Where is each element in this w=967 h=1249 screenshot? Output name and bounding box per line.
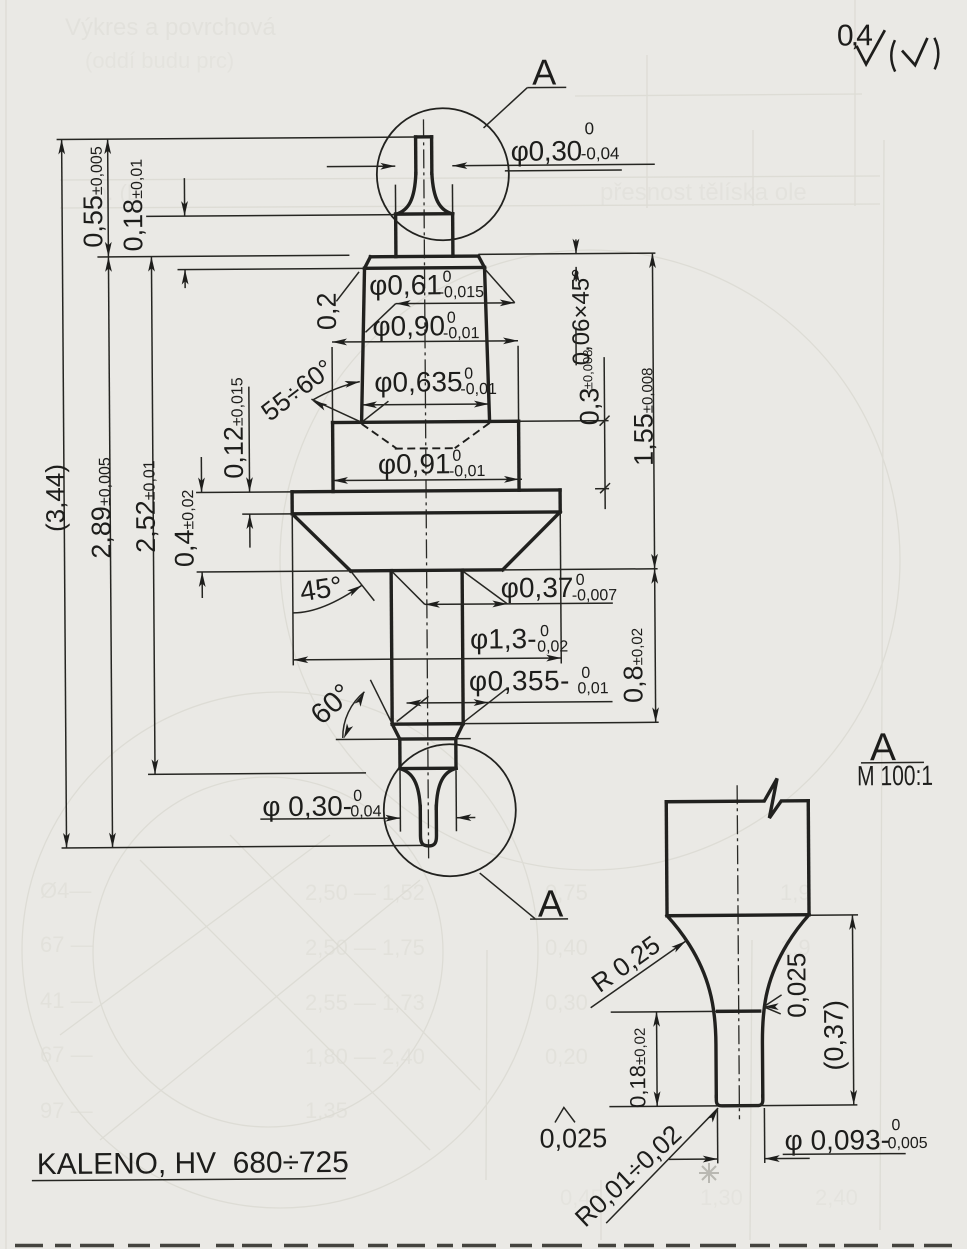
dim 0,8 xyxy=(655,569,656,722)
detail circle top xyxy=(376,108,509,241)
svg-text:0,025: 0,025 xyxy=(539,1123,607,1153)
dim 0,06x45 xyxy=(575,239,577,253)
extension line cone-base left xyxy=(197,571,351,572)
stem sides xyxy=(391,571,392,724)
bottom needle with round tip xyxy=(420,806,436,846)
dim 55÷60 xyxy=(311,399,361,423)
svg-text:φ 0,093-: φ 0,093- xyxy=(785,1124,891,1156)
dim 2,52 xyxy=(151,257,155,775)
flange sides xyxy=(290,492,294,514)
svg-text:(0,37): (0,37) xyxy=(819,1000,849,1071)
svg-text:φ0,30: φ0,30 xyxy=(511,135,582,166)
svg-text:φ0,61: φ0,61 xyxy=(369,269,442,301)
svg-text:0: 0 xyxy=(353,788,362,805)
dim 0,025 right xyxy=(764,1003,779,1010)
dim 0,18±0,02 detail xyxy=(656,1012,659,1106)
svg-text:0,40: 0,40 xyxy=(545,935,588,960)
svg-text:0,3: 0,3 xyxy=(574,388,604,426)
detail shoulder line xyxy=(667,913,809,917)
svg-text:φ 0,30-: φ 0,30- xyxy=(262,790,352,822)
head block sides xyxy=(361,268,366,422)
phi0.91 section sides xyxy=(331,423,335,492)
dim phi0,90 xyxy=(332,341,518,342)
dim 0,18 top phi0,30 line xyxy=(327,165,395,167)
svg-text:0,4: 0,4 xyxy=(837,19,873,52)
hidden cone dashed xyxy=(362,424,397,449)
flange top edge xyxy=(292,490,560,492)
dim 45deg xyxy=(351,571,375,601)
bottom trumpet flare xyxy=(400,769,420,809)
part centerline xyxy=(423,119,428,858)
chamfer base face xyxy=(400,737,456,741)
svg-text:0: 0 xyxy=(576,572,585,589)
dim R0,01÷0,02 xyxy=(605,1108,718,1223)
svg-text:Výkres a povrchová: Výkres a povrchová xyxy=(65,14,276,41)
dim (3,44) xyxy=(62,139,67,847)
detail 0,18 tick line xyxy=(611,1010,718,1013)
svg-text:0,02: 0,02 xyxy=(537,638,568,655)
detail cylinder sides xyxy=(665,802,669,916)
svg-text:φ0,91: φ0,91 xyxy=(378,448,451,480)
svg-text:67 —: 67 — xyxy=(40,932,93,957)
needle sides top xyxy=(414,137,418,173)
svg-text:2,50 — 1,52: 2,50 — 1,52 xyxy=(305,880,425,905)
part outline: tip top edge xyxy=(416,135,432,139)
extension verticals phi0,90 xyxy=(331,347,334,422)
dim 0,4 xyxy=(200,457,202,492)
paren right xyxy=(934,38,938,70)
dim 0,18 xyxy=(183,178,185,216)
svg-text:φ0,635: φ0,635 xyxy=(374,366,462,398)
svg-text:1,35: 1,35 xyxy=(305,1098,348,1123)
dim 0,12 xyxy=(248,387,251,492)
extension line step level right xyxy=(519,420,609,423)
60deg chamfer xyxy=(392,724,400,739)
svg-text:±0,008: ±0,008 xyxy=(580,350,595,390)
svg-text:0: 0 xyxy=(447,310,456,327)
roughness check small xyxy=(902,38,928,65)
extension verticals phi1,3 xyxy=(292,514,293,665)
extension line flange-top right short xyxy=(595,488,609,490)
svg-text:-0,04: -0,04 xyxy=(581,144,620,163)
trumpet flare top xyxy=(395,173,416,214)
svg-text:φ0,90: φ0,90 xyxy=(372,310,445,342)
extension verticals phi0,30 bottom xyxy=(399,771,401,832)
svg-text:1,30: 1,30 xyxy=(700,1185,743,1210)
dim phi0,61 xyxy=(396,302,515,305)
45deg cone xyxy=(292,513,350,571)
bottom shoulder xyxy=(400,766,456,770)
stem end face xyxy=(392,722,463,726)
svg-text:97 —: 97 — xyxy=(40,1098,93,1123)
flange bottom edge xyxy=(292,512,560,514)
svg-text:φ0,37: φ0,37 xyxy=(501,572,574,604)
svg-text:0,025: 0,025 xyxy=(781,953,811,1018)
detail centerline xyxy=(737,785,739,1119)
svg-text:2,50 — 1,75: 2,50 — 1,75 xyxy=(305,935,425,960)
detail needle round tip xyxy=(716,1096,763,1106)
svg-text:φ1,3-: φ1,3- xyxy=(470,623,537,654)
svg-text:-0,01: -0,01 xyxy=(460,381,497,398)
step edge xyxy=(333,421,519,422)
svg-text:0,04: 0,04 xyxy=(350,803,381,820)
svg-text:0,01: 0,01 xyxy=(577,680,608,697)
svg-text:0: 0 xyxy=(581,665,590,682)
svg-text:(3,44): (3,44) xyxy=(40,464,70,532)
dim 0,3 xyxy=(604,357,605,509)
leader to A bottom xyxy=(480,873,535,919)
phi0.30 bottom cylinder xyxy=(398,739,402,768)
svg-text:67 —: 67 — xyxy=(40,1042,93,1067)
detail (0,37) ext right xyxy=(809,914,858,916)
svg-text:0,2: 0,2 xyxy=(312,292,342,330)
dim phi0,635 xyxy=(362,403,489,406)
leader to A top xyxy=(483,88,527,128)
svg-text:2,40: 2,40 xyxy=(815,1185,858,1210)
svg-text:-0,01: -0,01 xyxy=(443,325,480,342)
surface mark 0,025 bottom left xyxy=(555,1107,575,1122)
svg-text:(oddí budu prc): (oddí budu prc) xyxy=(85,48,234,73)
svg-text:0,30: 0,30 xyxy=(545,990,588,1015)
extension line flange-top left xyxy=(196,491,292,494)
svg-text:0: 0 xyxy=(540,623,549,640)
extension line head-face level left xyxy=(97,255,349,257)
svg-text:A: A xyxy=(538,883,564,925)
detail trumpet curves xyxy=(667,915,716,1096)
extension line block-top level left xyxy=(178,268,365,269)
extension line tip top level xyxy=(57,137,416,140)
svg-text:0,20: 0,20 xyxy=(545,1044,588,1069)
dim phi1,3 xyxy=(293,658,561,660)
svg-text:0: 0 xyxy=(452,448,461,465)
svg-text:M 100:1: M 100:1 xyxy=(857,760,933,792)
scanner edge dashes xyxy=(15,1244,952,1248)
paren left xyxy=(891,40,895,72)
dim phi0,91 xyxy=(333,479,522,480)
shoulder line xyxy=(396,212,453,216)
svg-text:41 —: 41 — xyxy=(40,988,93,1013)
extension line chamfer-base left xyxy=(336,738,471,741)
head chamfer 0,06x45 xyxy=(364,257,370,269)
svg-text:-0,015: -0,015 xyxy=(439,284,485,301)
detail tip extension line xyxy=(609,1105,857,1107)
svg-text:-0,01: -0,01 xyxy=(449,463,486,480)
dim phi0,30 bottom xyxy=(260,817,400,820)
extension line stem-end right xyxy=(463,722,658,723)
svg-text:1,80 — 2,40: 1,80 — 2,40 xyxy=(305,1044,425,1069)
svg-text:0: 0 xyxy=(464,366,473,383)
svg-text:0: 0 xyxy=(584,119,594,138)
svg-text:KALENO, HV 680÷725: KALENO, HV 680÷725 xyxy=(37,1146,349,1181)
svg-text:0: 0 xyxy=(891,1117,900,1134)
dim phi0,355 xyxy=(407,702,613,703)
svg-text:Ø4—⁠: Ø4—⁠ xyxy=(40,878,91,903)
dim phi0,37 xyxy=(425,603,613,604)
svg-text:0,005: 0,005 xyxy=(888,1135,928,1152)
extension line cone-base right xyxy=(503,569,658,570)
svg-text:A: A xyxy=(532,51,556,92)
extension line head-face level right xyxy=(478,253,655,254)
dim (0,37) xyxy=(852,915,853,1105)
extension line 2,52 bottom xyxy=(148,773,366,775)
faint gray asterisk mark xyxy=(699,1163,719,1183)
dim 0,2 leader xyxy=(336,272,359,301)
head top face xyxy=(370,254,478,258)
dim 1,55 xyxy=(652,253,654,569)
svg-text:45°: 45° xyxy=(298,570,344,607)
dim phi0,093 xyxy=(716,1108,718,1163)
svg-text:přesnost tělíska ole: přesnost tělíska ole xyxy=(600,179,807,206)
cone base line xyxy=(351,570,503,571)
svg-text:-0,007: -0,007 xyxy=(572,587,618,604)
extension line bottom tip level xyxy=(62,845,429,848)
dim 60deg xyxy=(370,680,399,740)
svg-text:φ0,355-: φ0,355- xyxy=(469,665,570,697)
head block top edge xyxy=(365,266,485,270)
dim R 0,25 xyxy=(590,941,686,1008)
detail circle bottom xyxy=(383,744,516,877)
svg-text:2,55 — 1,73: 2,55 — 1,73 xyxy=(305,990,425,1015)
roughness check big xyxy=(856,30,885,64)
extension line shoulder level xyxy=(146,215,395,217)
detail cylinder top edge with break xyxy=(666,778,808,818)
extension line flange-bottom left xyxy=(242,513,292,515)
svg-text:1,9: 1,9 xyxy=(780,880,811,905)
phi0.30 cylinder xyxy=(394,214,398,256)
dim 0,55 and 2,89 shared line xyxy=(108,139,113,847)
svg-text:0: 0 xyxy=(443,269,452,286)
extension verticals phi0,30 top xyxy=(394,185,396,214)
